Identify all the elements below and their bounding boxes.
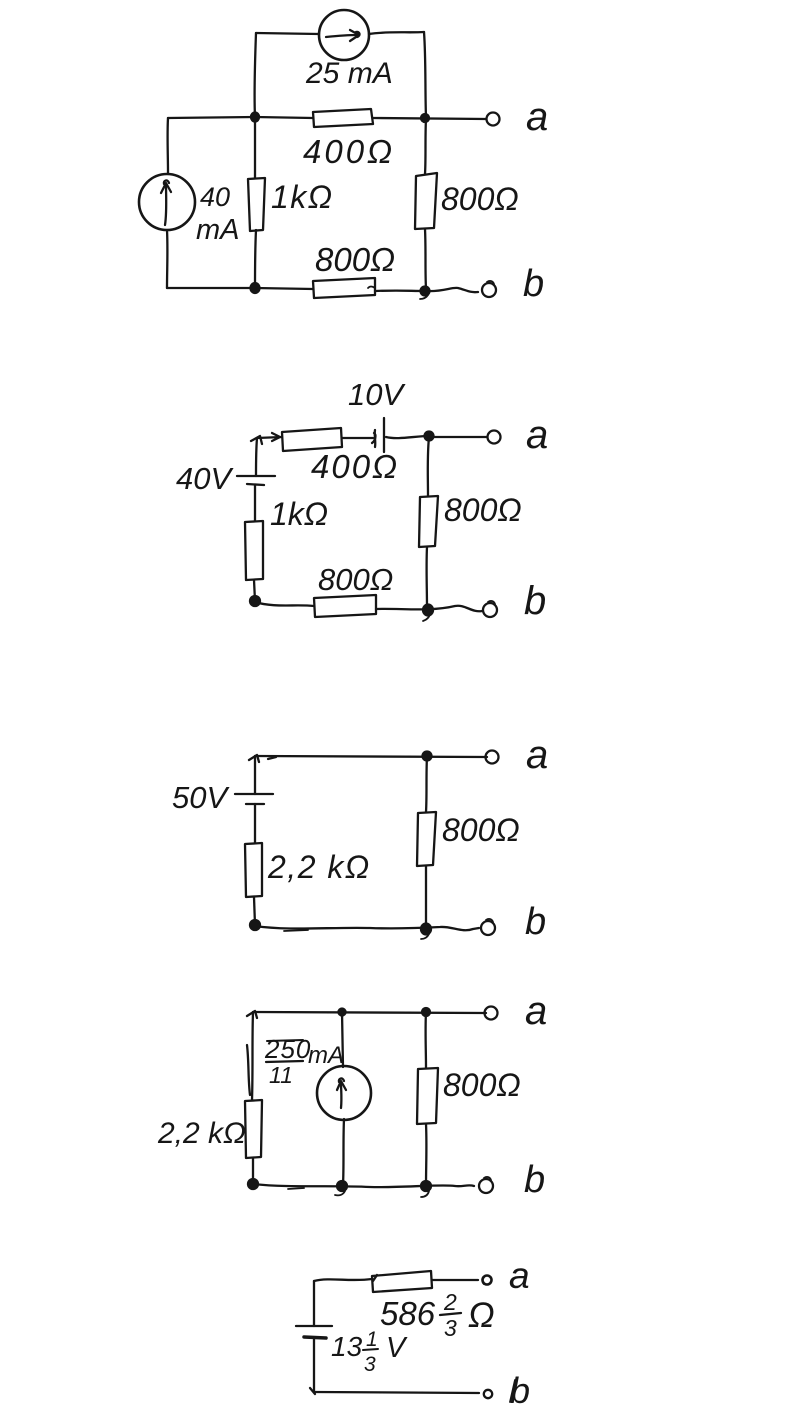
svg-text:3: 3 bbox=[364, 1353, 376, 1376]
wire: top wavy segment bbox=[314, 1279, 372, 1281]
svg-text:11: 11 bbox=[269, 1062, 293, 1088]
svg-text:800Ω: 800Ω bbox=[441, 181, 519, 217]
wire: node-a horizontal right part bbox=[373, 118, 486, 119]
svg-text:400Ω: 400Ω bbox=[303, 133, 395, 170]
wire: box to battery bbox=[342, 437, 373, 439]
wire: bottom left segment bbox=[167, 288, 313, 289]
junction (427,756) bbox=[423, 752, 432, 761]
wire: right branch upper riser bbox=[424, 32, 426, 118]
junction (429,436) bbox=[425, 432, 434, 441]
battery long plate bbox=[296, 1325, 332, 1327]
battery 40V long plate bbox=[237, 475, 275, 477]
wire: left branch upper bbox=[166, 118, 169, 173]
wire: left branch lower bbox=[166, 230, 169, 288]
wire: bottom right segment to terminal b bbox=[376, 606, 482, 612]
wire: bottom rail wavy bbox=[255, 926, 479, 930]
resistor 2.2k box bbox=[245, 1100, 262, 1158]
junction (342,1012) bbox=[339, 1009, 346, 1016]
wire: right branch lower bbox=[425, 547, 428, 608]
terminal b circle bbox=[482, 283, 496, 297]
svg-text:400Ω: 400Ω bbox=[311, 448, 399, 485]
resistor 400ohm box bbox=[313, 109, 373, 127]
wire: box to terminal a bbox=[432, 1279, 478, 1281]
wire: battery to right junction bbox=[386, 436, 429, 438]
junction blob (253,1184) bbox=[248, 1179, 258, 1189]
wire: left riser lower bbox=[313, 1338, 315, 1392]
terminal a circle bbox=[487, 113, 500, 126]
svg-text:50V: 50V bbox=[172, 780, 230, 815]
wire: node-a horizontal left part bbox=[168, 117, 313, 118]
current source I1 25mA circle bbox=[319, 10, 369, 60]
svg-text:800Ω: 800Ω bbox=[444, 492, 522, 528]
junction blob (426,1186) bbox=[421, 1181, 431, 1191]
wire: left riser bbox=[313, 1281, 315, 1326]
junction (426,1012) bbox=[422, 1008, 430, 1016]
wire: bottom wavy left segment bbox=[255, 602, 314, 606]
junction at (425,118) bbox=[421, 114, 429, 122]
svg-text:800Ω: 800Ω bbox=[442, 812, 520, 848]
wire: right branch upper (node a to 800) bbox=[425, 118, 426, 174]
resistor 800ohm box bbox=[417, 812, 436, 866]
svg-text:800Ω: 800Ω bbox=[315, 241, 395, 278]
junction bottom (425,291) bbox=[421, 287, 430, 296]
battery short plate bbox=[304, 1337, 326, 1338]
svg-text:25 mA: 25 mA bbox=[305, 57, 393, 90]
wire: top-left corner with arrowhead bbox=[257, 437, 282, 438]
terminal a circle bbox=[485, 1007, 498, 1020]
fraction bar under 250 bbox=[266, 1061, 303, 1062]
terminal b circle bbox=[484, 1390, 492, 1398]
battery 50V long plate bbox=[235, 793, 273, 795]
current source arrow bbox=[340, 1082, 343, 1108]
svg-text:b: b bbox=[523, 263, 544, 305]
resistor 1k box bbox=[245, 521, 263, 580]
current source I1 arrow bbox=[326, 35, 357, 37]
wire: left branch upper with stray stroke bbox=[252, 1012, 253, 1100]
junction blob (342,1186) bbox=[337, 1181, 347, 1191]
wire: 2.2k to bottom bbox=[254, 897, 255, 925]
wire: right branch lower bbox=[425, 866, 427, 928]
corner tick bbox=[247, 1011, 257, 1018]
terminal a dot bbox=[483, 1276, 492, 1285]
svg-text:a: a bbox=[526, 413, 548, 457]
wire: doubled stroke on bottom rail bbox=[284, 930, 308, 931]
battery 10V long plate bbox=[383, 418, 385, 452]
svg-text:1kΩ: 1kΩ bbox=[271, 179, 334, 215]
wire: right branch lower bbox=[425, 229, 426, 289]
wire: junction to terminal a bbox=[429, 436, 487, 438]
svg-text:3: 3 bbox=[444, 1315, 457, 1341]
resistor 800ohm bottom box bbox=[314, 595, 376, 617]
wire: battery to 2.2k bbox=[254, 804, 256, 843]
resistor 800ohm right box bbox=[419, 496, 438, 547]
junction bottom (255,288) bbox=[251, 283, 260, 293]
svg-text:2: 2 bbox=[443, 1289, 457, 1315]
wire: top rail bbox=[253, 1012, 486, 1013]
wire: right branch upper bbox=[428, 437, 429, 496]
svg-text:250: 250 bbox=[264, 1034, 311, 1064]
svg-text:b: b bbox=[524, 1159, 545, 1201]
battery 50V short plate bbox=[246, 803, 264, 805]
junction (428,610) bbox=[423, 605, 433, 616]
svg-text:b: b bbox=[524, 579, 546, 623]
wire: left riser bbox=[254, 756, 256, 794]
svg-text:a: a bbox=[526, 95, 548, 139]
svg-text:1kΩ: 1kΩ bbox=[270, 496, 328, 532]
wire: left branch lower bbox=[252, 1158, 254, 1184]
svg-text:2,2 kΩ: 2,2 kΩ bbox=[267, 849, 371, 885]
svg-text:b: b bbox=[525, 901, 546, 943]
wire: middle branch upper bbox=[342, 1012, 343, 1067]
wire: top left segment to 25mA source bbox=[256, 33, 319, 34]
svg-text:mA: mA bbox=[308, 1042, 344, 1069]
wire: left branch top riser bbox=[256, 438, 257, 476]
wire: doubled stroke on bottom rail bbox=[288, 1188, 304, 1189]
wire: bottom rail bbox=[314, 1392, 479, 1393]
svg-text:10V: 10V bbox=[348, 377, 406, 412]
svg-text:a: a bbox=[509, 1255, 530, 1296]
wire: middle branch upper (node a to 1k) bbox=[254, 117, 256, 178]
svg-text:13: 13 bbox=[331, 1331, 363, 1362]
terminal a circle bbox=[488, 431, 501, 444]
overline above 250 bbox=[267, 1040, 303, 1041]
wire: right branch upper bbox=[424, 1012, 427, 1068]
svg-text:Ω: Ω bbox=[468, 1296, 495, 1335]
wire: bottom right segment to terminal b bbox=[375, 288, 478, 292]
wire: 1k to bottom corner bbox=[254, 580, 255, 601]
resistor 800ohm right box bbox=[415, 173, 437, 229]
wire: bottom rail wavy bbox=[253, 1184, 474, 1187]
wire: battery to 1k resistor bbox=[254, 485, 256, 521]
junction blob bottom-left (255,601) bbox=[250, 596, 260, 606]
junction at (255,117) bbox=[251, 113, 259, 122]
svg-text:800Ω: 800Ω bbox=[443, 1067, 521, 1103]
resistor 800ohm bottom box bbox=[313, 278, 375, 298]
svg-text:800Ω: 800Ω bbox=[318, 562, 393, 597]
svg-text:a: a bbox=[526, 733, 548, 777]
current source I2 40mA circle bbox=[139, 174, 195, 230]
battery 40V short plate bbox=[247, 484, 264, 485]
svg-text:40V: 40V bbox=[176, 461, 234, 496]
terminal b circle bbox=[479, 1179, 493, 1193]
wire: middle branch lower bbox=[343, 1119, 344, 1185]
resistor 800ohm box bbox=[417, 1068, 438, 1124]
svg-text:mA: mA bbox=[196, 214, 240, 246]
battery 10V short plate bbox=[374, 430, 377, 447]
wire: middle branch riser to top bbox=[255, 33, 256, 117]
svg-text:a: a bbox=[525, 989, 547, 1033]
wire: right branch lower bbox=[425, 1124, 428, 1186]
svg-text:586: 586 bbox=[380, 1295, 436, 1332]
svg-text:2,2 kΩ: 2,2 kΩ bbox=[157, 1117, 246, 1150]
resistor 1k box bbox=[248, 178, 265, 231]
corner tick bbox=[249, 755, 259, 762]
resistor 2.2k box bbox=[245, 843, 262, 897]
terminal a circle bbox=[486, 751, 499, 764]
wire: right branch upper bbox=[426, 756, 427, 812]
junction (426,929) bbox=[421, 924, 431, 935]
current source circle bbox=[317, 1066, 371, 1120]
wire: top rail bbox=[255, 756, 487, 757]
terminal b circle bbox=[483, 603, 497, 617]
svg-text:1: 1 bbox=[366, 1328, 378, 1351]
resistor box bbox=[372, 1271, 432, 1292]
resistor 400ohm box bbox=[282, 428, 342, 451]
svg-text:40: 40 bbox=[200, 182, 230, 212]
junction blob (255,925) bbox=[250, 920, 260, 930]
current source I2 arrow bbox=[165, 185, 166, 225]
wire: middle branch lower bbox=[255, 230, 256, 288]
wire: top right segment from source to right branch corner bbox=[369, 32, 424, 34]
svg-text:V: V bbox=[386, 1332, 408, 1364]
terminal b circle bbox=[481, 921, 495, 935]
